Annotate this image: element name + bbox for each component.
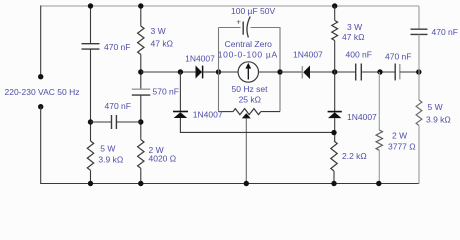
svg-text:50 Hz set: 50 Hz set <box>232 84 269 94</box>
node AC terminal bottom <box>38 104 43 109</box>
svg-text:470 nF: 470 nF <box>385 51 411 61</box>
wire <box>361 71 395 73</box>
node <box>331 130 336 135</box>
node <box>178 69 183 74</box>
wire <box>219 111 234 113</box>
resistor R6 3777 2W <box>376 130 382 150</box>
svg-text:3 W: 3 W <box>151 26 166 36</box>
svg-text:470 nF: 470 nF <box>104 42 130 52</box>
svg-text:470 nF: 470 nF <box>105 101 131 111</box>
potentiometer P1 25k <box>233 109 261 115</box>
capacitor C4 100uF 50V <box>242 22 244 35</box>
node <box>244 181 249 186</box>
resistor R7 3.9k 5W <box>416 100 422 126</box>
node <box>88 3 93 8</box>
capacitor C7 470nF <box>411 28 428 30</box>
wire <box>90 6 92 44</box>
svg-text:Central Zero: Central Zero <box>225 39 273 49</box>
wire branch left <box>141 71 196 73</box>
wire <box>310 71 356 73</box>
capacitor C1 470nF <box>82 43 100 45</box>
node <box>138 181 143 186</box>
svg-text:470 nF: 470 nF <box>432 27 458 37</box>
node AC terminal top <box>38 74 43 79</box>
svg-text:+: + <box>236 18 241 27</box>
wire <box>140 168 142 183</box>
svg-text:5 W: 5 W <box>100 144 115 154</box>
wire box top left <box>219 27 241 29</box>
capacitor C5 400nF <box>355 64 357 81</box>
op meter M1 circle <box>238 62 258 82</box>
capacitor C6 470nF <box>394 64 396 81</box>
wire <box>400 71 419 73</box>
wire <box>179 72 181 111</box>
svg-text:1N4007: 1N4007 <box>293 50 323 60</box>
resistor R4 4020 2W <box>138 140 144 169</box>
svg-text:570 nF: 570 nF <box>153 87 179 97</box>
node <box>277 69 282 74</box>
svg-text:3.9 kΩ: 3.9 kΩ <box>426 115 451 125</box>
node <box>138 69 143 74</box>
resistor R2 47k 3W <box>332 20 338 40</box>
node <box>88 181 93 186</box>
resistor R1 47k 3W <box>138 26 144 55</box>
node <box>332 3 337 8</box>
wire <box>280 71 302 73</box>
svg-text:4020 Ω: 4020 Ω <box>149 154 177 164</box>
svg-text:100 µF 50V: 100 µF 50V <box>231 6 275 16</box>
svg-text:220-230 VAC 50 Hz: 220-230 VAC 50 Hz <box>5 87 80 97</box>
diode D2 1N4007 <box>301 66 303 78</box>
wire <box>378 150 380 183</box>
wire <box>90 170 92 183</box>
wire <box>203 71 219 73</box>
wire box top right <box>251 27 281 29</box>
svg-text:3.9 kΩ: 3.9 kΩ <box>98 154 123 164</box>
wire <box>219 71 239 73</box>
wire <box>334 41 336 112</box>
wire <box>140 6 142 26</box>
wire left rail lower <box>40 107 42 184</box>
node <box>377 69 382 74</box>
svg-text:1N4007: 1N4007 <box>185 54 215 64</box>
node <box>332 69 337 74</box>
svg-text:400 nF: 400 nF <box>346 50 372 60</box>
node <box>416 69 421 74</box>
diode D1 1N4007 <box>196 66 203 79</box>
wire top rail <box>41 5 419 7</box>
diode D4 1N4007 <box>328 111 342 113</box>
svg-text:3 W: 3 W <box>347 22 362 32</box>
wire box left <box>218 28 220 112</box>
capacitor C3 470nF <box>91 121 112 123</box>
meter arrow <box>247 67 249 80</box>
svg-text:3777 Ω: 3777 Ω <box>388 141 416 151</box>
resistor R5 2.2k <box>331 141 337 171</box>
svg-text:47 kΩ: 47 kΩ <box>151 39 173 49</box>
wire <box>261 111 280 113</box>
svg-text:1N4007: 1N4007 <box>347 112 377 122</box>
wire <box>259 71 281 73</box>
wire box right <box>279 28 281 112</box>
svg-text:25 kΩ: 25 kΩ <box>239 95 261 105</box>
svg-text:2 W: 2 W <box>392 131 407 141</box>
wire left rail upper <box>40 6 42 77</box>
pot wiper arrow <box>242 113 251 118</box>
svg-text:100-0-100 µA: 100-0-100 µA <box>218 50 278 60</box>
wire elbow to right <box>180 118 334 132</box>
wire <box>140 55 142 90</box>
node <box>138 3 143 8</box>
wire <box>418 34 420 100</box>
wire <box>333 171 335 184</box>
wire right column <box>418 6 420 29</box>
diode D3 1N4007 <box>173 111 188 113</box>
wire <box>334 6 336 20</box>
wire <box>334 118 336 141</box>
resistor R3 3.9k 5W <box>87 141 93 170</box>
svg-text:47 kΩ: 47 kΩ <box>342 32 364 42</box>
node <box>331 181 336 186</box>
capacitor C2 570nF <box>132 88 151 90</box>
node <box>88 119 93 124</box>
node <box>138 119 143 124</box>
svg-text:2.2 kΩ: 2.2 kΩ <box>342 151 367 161</box>
wire <box>90 49 92 141</box>
svg-text:1N4007: 1N4007 <box>193 110 223 120</box>
wire <box>378 72 380 130</box>
node <box>376 181 381 186</box>
wire <box>418 126 420 185</box>
wire <box>140 95 142 140</box>
wire bottom rail <box>40 183 419 185</box>
node <box>216 69 221 74</box>
svg-text:5 W: 5 W <box>428 102 443 112</box>
